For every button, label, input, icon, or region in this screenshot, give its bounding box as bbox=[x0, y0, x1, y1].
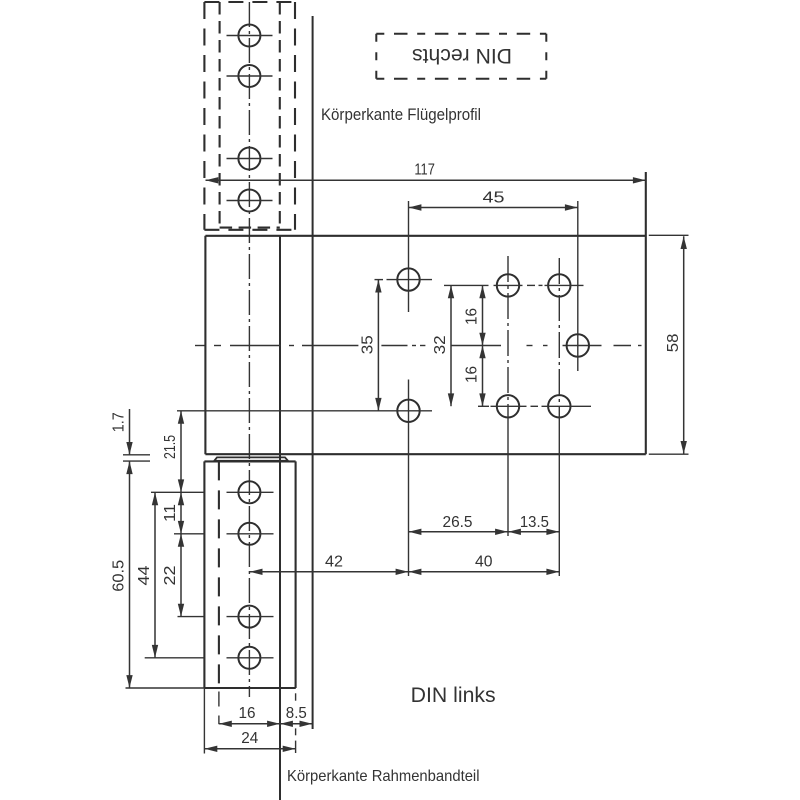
svg-text:22: 22 bbox=[162, 565, 179, 585]
svg-text:24: 24 bbox=[241, 730, 258, 747]
svg-text:40: 40 bbox=[475, 554, 493, 571]
svg-text:DIN rechts: DIN rechts bbox=[412, 44, 512, 67]
svg-text:45: 45 bbox=[483, 189, 505, 206]
svg-text:60.5: 60.5 bbox=[111, 560, 128, 592]
svg-text:8.5: 8.5 bbox=[286, 705, 307, 722]
svg-text:13.5: 13.5 bbox=[520, 514, 549, 531]
svg-text:Körperkante Flügelprofil: Körperkante Flügelprofil bbox=[321, 105, 481, 124]
svg-text:42: 42 bbox=[325, 554, 343, 571]
svg-text:16: 16 bbox=[463, 308, 480, 325]
svg-text:44: 44 bbox=[136, 565, 153, 585]
svg-text:117: 117 bbox=[414, 161, 435, 178]
svg-text:1.7: 1.7 bbox=[111, 412, 128, 432]
svg-text:32: 32 bbox=[432, 335, 449, 354]
svg-text:35: 35 bbox=[359, 335, 376, 354]
svg-text:21.5: 21.5 bbox=[162, 435, 179, 459]
svg-text:58: 58 bbox=[665, 333, 682, 352]
svg-text:DIN links: DIN links bbox=[411, 684, 496, 707]
svg-text:16: 16 bbox=[463, 366, 480, 383]
svg-text:16: 16 bbox=[239, 705, 256, 722]
svg-text:11: 11 bbox=[162, 504, 179, 522]
svg-text:26.5: 26.5 bbox=[443, 514, 473, 531]
svg-text:Körperkante Rahmenbandteil: Körperkante Rahmenbandteil bbox=[287, 768, 480, 785]
